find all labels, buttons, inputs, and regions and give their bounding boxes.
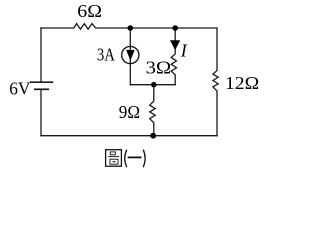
svg-text:6V: 6V	[9, 79, 30, 99]
svg-text:6Ω: 6Ω	[77, 1, 102, 21]
svg-text:12Ω: 12Ω	[225, 73, 259, 93]
svg-text:3A: 3A	[97, 45, 115, 65]
svg-text:3Ω: 3Ω	[146, 57, 172, 77]
svg-text:9Ω: 9Ω	[119, 102, 140, 122]
svg-text:I: I	[180, 40, 188, 60]
